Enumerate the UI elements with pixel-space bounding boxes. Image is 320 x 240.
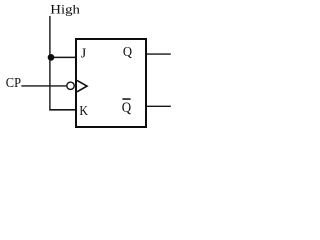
- wire from High down to K level: [49, 16, 51, 110]
- junction dot: [48, 54, 55, 61]
- pin label Q-bar: [122, 99, 132, 116]
- svg-text:High: High: [50, 2, 80, 17]
- clock edge triangle: [77, 80, 87, 91]
- wire Q output: [147, 53, 171, 55]
- clock bubble: [67, 82, 74, 89]
- svg-text:Q: Q: [122, 100, 132, 116]
- svg-text:Q: Q: [123, 45, 132, 60]
- wire J input: [50, 56, 77, 58]
- wire K input: [49, 109, 76, 111]
- wire Q-bar output: [147, 105, 171, 107]
- svg-text:J: J: [81, 47, 87, 62]
- wire CP input: [21, 85, 66, 87]
- JK flip-flop U1 body: [76, 39, 146, 127]
- svg-text:K: K: [79, 104, 88, 119]
- svg-text:CP: CP: [6, 75, 22, 90]
